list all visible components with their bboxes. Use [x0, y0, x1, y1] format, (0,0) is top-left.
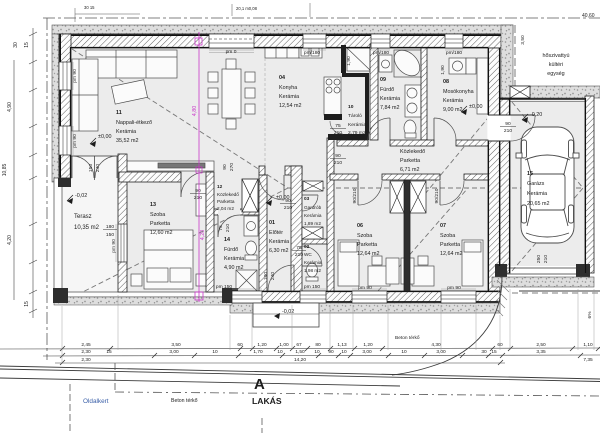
svg-text:150: 150 — [106, 232, 114, 238]
svg-text:15: 15 — [106, 349, 112, 355]
svg-text:1,70: 1,70 — [253, 349, 263, 355]
svg-text:pm 90: pm 90 — [111, 239, 117, 253]
svg-text:240: 240 — [95, 164, 101, 172]
svg-text:±0,00: ±0,00 — [469, 104, 482, 110]
svg-text:210: 210 — [295, 252, 303, 258]
svg-text:Előtér: Előtér — [269, 230, 283, 236]
svg-text:Szoba: Szoba — [150, 212, 165, 218]
svg-text:3,00: 3,00 — [362, 349, 372, 355]
svg-text:pm 90: pm 90 — [72, 134, 78, 148]
svg-text:3,50: 3,50 — [171, 342, 181, 348]
svg-text:15: 15 — [527, 171, 533, 177]
svg-text:7,35: 7,35 — [583, 357, 593, 363]
svg-text:1,20: 1,20 — [363, 342, 373, 348]
svg-text:02: 02 — [304, 244, 310, 249]
svg-text:4,90: 4,90 — [7, 102, 13, 112]
svg-text:01: 01 — [269, 220, 275, 226]
svg-text:Kerámia: Kerámia — [304, 260, 322, 265]
svg-text:Garázs: Garázs — [527, 181, 545, 187]
svg-text:Mosókonyha: Mosókonyha — [443, 89, 474, 95]
svg-text:15: 15 — [24, 42, 30, 48]
svg-text:2,79 m2: 2,79 m2 — [348, 130, 366, 136]
svg-text:10: 10 — [212, 349, 218, 355]
svg-text:pm 90: pm 90 — [358, 285, 372, 291]
svg-text:Parketta: Parketta — [440, 242, 460, 248]
svg-text:210: 210 — [334, 160, 342, 166]
svg-text:10: 10 — [341, 349, 347, 355]
svg-text:pm 150: pm 150 — [304, 284, 321, 290]
svg-text:4,20: 4,20 — [200, 230, 206, 241]
svg-text:pm 150: pm 150 — [216, 284, 233, 290]
svg-text:2,04 m2: 2,04 m2 — [217, 206, 234, 211]
svg-text:15: 15 — [24, 301, 30, 307]
svg-text:15: 15 — [491, 349, 497, 355]
svg-text:75: 75 — [218, 225, 224, 231]
svg-text:20,65 m2: 20,65 m2 — [527, 201, 549, 207]
svg-text:12,60 m2: 12,60 m2 — [150, 230, 172, 236]
svg-text:08: 08 — [443, 79, 449, 85]
svg-text:WC: WC — [304, 252, 312, 257]
svg-text:1,50: 1,50 — [295, 349, 305, 355]
svg-text:100: 100 — [263, 272, 269, 280]
svg-text:10,35 m2: 10,35 m2 — [74, 225, 100, 231]
svg-text:60: 60 — [237, 342, 243, 348]
svg-text:-0,20: -0,20 — [530, 112, 542, 118]
svg-text:Szoba: Szoba — [440, 233, 455, 239]
svg-text:pm 90: pm 90 — [72, 69, 78, 83]
svg-text:210: 210 — [225, 224, 231, 232]
svg-text:4,20: 4,20 — [7, 235, 13, 245]
svg-text:10: 10 — [401, 349, 407, 355]
svg-text:80: 80 — [315, 342, 321, 348]
svg-text:-0,02: -0,02 — [282, 309, 294, 315]
svg-text:2,30: 2,30 — [81, 349, 91, 355]
svg-text:Kerámia: Kerámia — [279, 94, 299, 100]
svg-text:90/210: 90/210 — [352, 188, 358, 203]
svg-text:Terasz: Terasz — [74, 214, 92, 220]
svg-text:LAKÁS: LAKÁS — [252, 396, 282, 406]
svg-text:Parketta: Parketta — [357, 242, 377, 248]
svg-text:4,80: 4,80 — [192, 106, 198, 117]
svg-text:14,20: 14,20 — [294, 357, 306, 363]
svg-text:Fürdő: Fürdő — [224, 247, 238, 253]
svg-text:250: 250 — [536, 255, 542, 263]
svg-text:40,60: 40,60 — [582, 13, 595, 19]
svg-text:150: 150 — [88, 164, 94, 172]
svg-text:20,1 m0,08: 20,1 m0,08 — [236, 6, 258, 11]
svg-text:3,00: 3,00 — [169, 349, 179, 355]
svg-text:1,98 m2: 1,98 m2 — [304, 268, 321, 273]
svg-text:4,90 m2: 4,90 m2 — [224, 265, 243, 271]
svg-text:Kerámia: Kerámia — [348, 122, 366, 128]
svg-text:2,30: 2,30 — [81, 357, 91, 363]
svg-text:Fürdő: Fürdő — [380, 87, 394, 93]
svg-text:90: 90 — [285, 198, 291, 204]
svg-text:Parketta: Parketta — [400, 158, 420, 164]
svg-text:210: 210 — [284, 205, 292, 211]
svg-text:Konyha: Konyha — [279, 85, 297, 91]
svg-text:10,85: 10,85 — [2, 164, 8, 177]
svg-text:pm 90: pm 90 — [447, 285, 461, 291]
svg-text:90/210: 90/210 — [434, 188, 440, 203]
svg-text:2,45: 2,45 — [81, 342, 91, 348]
svg-text:1,10: 1,10 — [583, 342, 593, 348]
svg-text:30: 30 — [481, 349, 487, 355]
svg-text:Kerámia: Kerámia — [443, 98, 463, 104]
svg-text:7,84 m2: 7,84 m2 — [380, 105, 399, 111]
svg-text:90: 90 — [195, 188, 201, 194]
svg-text:6,30 m2: 6,30 m2 — [269, 248, 288, 254]
svg-text:210: 210 — [543, 255, 549, 263]
svg-text:Kerámia: Kerámia — [304, 213, 322, 218]
svg-text:75: 75 — [296, 245, 302, 251]
svg-text:6%: 6% — [587, 311, 593, 319]
svg-text:3,50: 3,50 — [520, 35, 526, 45]
svg-text:Beton térkő: Beton térkő — [171, 398, 198, 404]
svg-text:03: 03 — [304, 196, 310, 201]
svg-text:12: 12 — [217, 184, 223, 189]
svg-text:09: 09 — [380, 77, 386, 83]
svg-text:210: 210 — [334, 130, 342, 136]
svg-text:30 15: 30 15 — [84, 5, 95, 10]
svg-text:1,89 m2: 1,89 m2 — [304, 221, 321, 226]
svg-text:12,64 m2: 12,64 m2 — [440, 251, 462, 257]
svg-text:4,30: 4,30 — [431, 342, 441, 348]
svg-text:Beton térkő: Beton térkő — [395, 335, 420, 341]
svg-text:1,90: 1,90 — [440, 65, 446, 75]
svg-text:90: 90 — [335, 153, 341, 159]
svg-text:Nappali-étkező: Nappali-étkező — [116, 120, 152, 126]
svg-text:A: A — [254, 376, 265, 393]
svg-text:Kerámia: Kerámia — [224, 256, 244, 262]
svg-text:Parketta: Parketta — [150, 221, 170, 227]
svg-text:1,90: 1,90 — [346, 56, 352, 66]
svg-text:1,00: 1,00 — [279, 342, 289, 348]
svg-text:10: 10 — [348, 104, 354, 110]
svg-text:210: 210 — [504, 128, 512, 134]
svg-text:67: 67 — [296, 342, 302, 348]
svg-text:75: 75 — [335, 123, 341, 129]
svg-text:kültéri: kültéri — [549, 62, 563, 68]
svg-text:Kerámia: Kerámia — [380, 96, 400, 102]
svg-text:90: 90 — [505, 121, 511, 127]
svg-text:07: 07 — [440, 223, 446, 229]
svg-text:210: 210 — [194, 195, 202, 201]
svg-text:1,20: 1,20 — [257, 342, 267, 348]
svg-text:90: 90 — [222, 164, 228, 170]
svg-text:Közlekedő: Közlekedő — [400, 149, 425, 155]
svg-text:10: 10 — [277, 349, 283, 355]
svg-text:±0,00: ±0,00 — [98, 134, 111, 140]
svg-text:11: 11 — [116, 110, 122, 116]
svg-text:04: 04 — [279, 75, 285, 81]
svg-text:14: 14 — [224, 237, 230, 243]
svg-text:Kerámia: Kerámia — [116, 129, 136, 135]
svg-text:6,71 m2: 6,71 m2 — [400, 167, 419, 173]
svg-text:35,52 m2: 35,52 m2 — [116, 138, 138, 144]
svg-text:13: 13 — [150, 202, 156, 208]
svg-text:180: 180 — [106, 224, 114, 230]
svg-text:pm/180: pm/180 — [373, 50, 390, 56]
svg-text:270: 270 — [229, 163, 235, 171]
svg-text:12,64 m2: 12,64 m2 — [357, 251, 379, 257]
svg-text:1,13: 1,13 — [337, 342, 347, 348]
svg-text:Közlekedő: Közlekedő — [217, 192, 239, 197]
svg-text:pm/180: pm/180 — [304, 50, 321, 56]
svg-text:hőszivattyú: hőszivattyú — [543, 53, 570, 59]
svg-text:-0,02: -0,02 — [75, 193, 87, 199]
svg-text:90: 90 — [328, 349, 334, 355]
svg-text:10: 10 — [314, 349, 320, 355]
svg-text:pm/180: pm/180 — [446, 50, 463, 56]
svg-text:Tároló: Tároló — [348, 113, 362, 119]
svg-text:pm 0: pm 0 — [226, 49, 237, 55]
svg-text:Oldalkert: Oldalkert — [83, 398, 109, 405]
svg-text:12,54 m2: 12,54 m2 — [279, 103, 301, 109]
svg-text:3,35: 3,35 — [536, 349, 546, 355]
svg-text:Parketta: Parketta — [217, 199, 235, 204]
svg-text:2,50: 2,50 — [536, 342, 546, 348]
svg-text:egység: egység — [547, 71, 564, 77]
svg-text:06: 06 — [357, 223, 363, 229]
svg-text:9,00 m2: 9,00 m2 — [443, 107, 462, 113]
svg-text:Kerámia: Kerámia — [527, 191, 547, 197]
svg-text:Gardrób: Gardrób — [304, 205, 322, 210]
svg-text:240: 240 — [270, 272, 276, 280]
svg-text:Szoba: Szoba — [357, 233, 372, 239]
svg-text:30: 30 — [13, 42, 19, 48]
svg-text:Kerámia: Kerámia — [269, 239, 289, 245]
